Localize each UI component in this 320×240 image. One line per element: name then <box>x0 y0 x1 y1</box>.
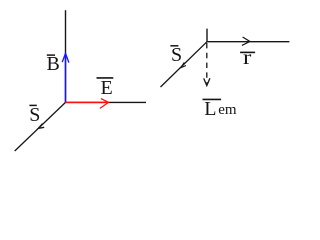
label S right <box>171 45 182 65</box>
overline of B label <box>47 54 55 56</box>
vector L_em dashed shaft <box>206 43 208 84</box>
overline of r label <box>240 51 255 53</box>
label em subscript <box>218 103 236 118</box>
label E <box>101 78 113 98</box>
vector L_em arrowhead <box>204 78 210 85</box>
overline of S left label <box>29 104 36 106</box>
label r <box>243 48 251 68</box>
overline of S right label <box>170 45 178 47</box>
wire right diagonal line <box>161 42 208 87</box>
vector r arrowhead <box>242 37 250 45</box>
wire left vertical axis <box>65 10 67 102</box>
wire right horizontal line <box>207 41 289 43</box>
label S left <box>29 105 40 125</box>
vector B blue shaft <box>65 53 67 102</box>
wire left horizontal axis <box>66 101 147 103</box>
vector S left arrowhead <box>38 124 44 129</box>
overline of L_em label <box>203 98 222 100</box>
label B <box>47 54 60 74</box>
vector B arrowhead <box>62 53 69 62</box>
wire left diagonal axis <box>15 102 66 151</box>
overline of E label <box>97 77 114 79</box>
label L <box>204 99 216 119</box>
wire right vertical tick <box>206 29 208 42</box>
vector E arrowhead <box>100 99 109 109</box>
vector E red shaft <box>66 101 109 103</box>
vector S right arrowhead <box>181 62 186 67</box>
